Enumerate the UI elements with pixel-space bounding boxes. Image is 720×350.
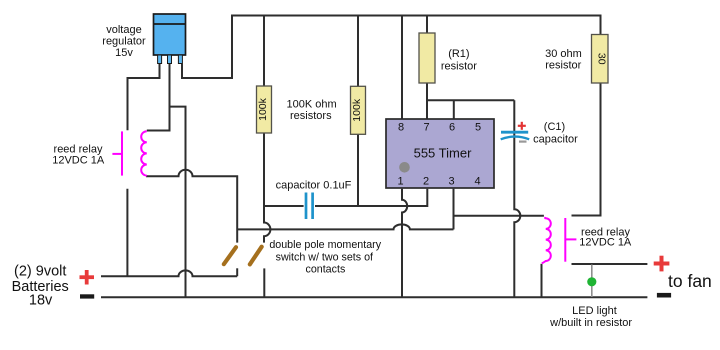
svg-text:100k: 100k xyxy=(351,98,363,122)
svg-text:to fan: to fan xyxy=(668,271,712,291)
svg-text:12VDC 1A: 12VDC 1A xyxy=(52,155,105,167)
svg-text:1: 1 xyxy=(398,175,404,187)
svg-text:18v: 18v xyxy=(29,292,53,308)
svg-text:(2) 9volt: (2) 9volt xyxy=(14,264,66,280)
svg-text:w/built in resistor: w/built in resistor xyxy=(549,317,632,329)
svg-text:555 Timer: 555 Timer xyxy=(414,145,472,160)
svg-text:7: 7 xyxy=(424,121,430,133)
svg-text:12VDC 1A: 12VDC 1A xyxy=(579,237,632,249)
svg-text:8: 8 xyxy=(398,121,404,133)
svg-text:voltage: voltage xyxy=(106,24,141,36)
svg-text:contacts: contacts xyxy=(305,264,345,276)
svg-text:5: 5 xyxy=(475,121,481,133)
svg-text:switch w/ two sets of: switch w/ two sets of xyxy=(276,251,373,263)
svg-text:double pole momentary: double pole momentary xyxy=(269,239,381,251)
svg-text:resistors: resistors xyxy=(290,110,332,122)
svg-text:15v: 15v xyxy=(115,47,133,59)
svg-text:3: 3 xyxy=(449,175,455,187)
svg-text:100k: 100k xyxy=(257,97,269,121)
svg-text:capacitor: capacitor xyxy=(533,133,578,145)
svg-text:30 ohm: 30 ohm xyxy=(545,48,582,60)
svg-text:resistor: resistor xyxy=(545,60,581,72)
svg-text:30: 30 xyxy=(595,53,607,65)
svg-text:regulator: regulator xyxy=(102,36,146,48)
svg-text:LED light: LED light xyxy=(572,305,617,317)
svg-text:resistor: resistor xyxy=(441,60,477,72)
svg-text:2: 2 xyxy=(423,175,429,187)
svg-text:6: 6 xyxy=(449,121,455,133)
svg-text:(R1): (R1) xyxy=(448,48,469,60)
svg-text:4: 4 xyxy=(475,175,481,187)
svg-text:(C1): (C1) xyxy=(544,121,565,133)
svg-text:capacitor 0.1uF: capacitor 0.1uF xyxy=(276,180,352,192)
svg-text:100K ohm: 100K ohm xyxy=(287,99,337,111)
